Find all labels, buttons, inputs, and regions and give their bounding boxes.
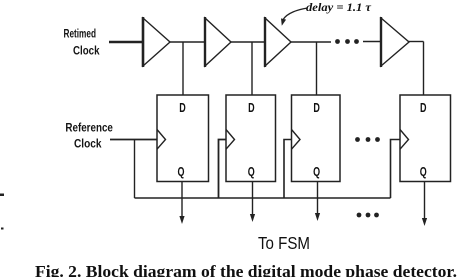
svg-text:Reference: Reference xyxy=(65,120,113,134)
svg-text:D: D xyxy=(420,100,427,115)
svg-text:Retimed: Retimed xyxy=(64,26,97,40)
svg-text:Fig. 2. Block diagram of the d: Fig. 2. Block diagram of the digital mod… xyxy=(35,262,457,277)
svg-text:D: D xyxy=(179,100,186,115)
svg-text:Q: Q xyxy=(248,164,255,179)
svg-text:Q: Q xyxy=(313,164,320,179)
svg-text:D: D xyxy=(313,100,320,115)
svg-text:To FSM: To FSM xyxy=(258,233,310,253)
svg-text:Clock: Clock xyxy=(74,136,102,150)
svg-text:Q: Q xyxy=(178,164,185,179)
svg-text:Q: Q xyxy=(420,164,427,179)
svg-text:D: D xyxy=(248,100,255,115)
svg-text:Clock: Clock xyxy=(73,43,100,57)
svg-text:delay = 1.1 τ: delay = 1.1 τ xyxy=(306,0,372,14)
